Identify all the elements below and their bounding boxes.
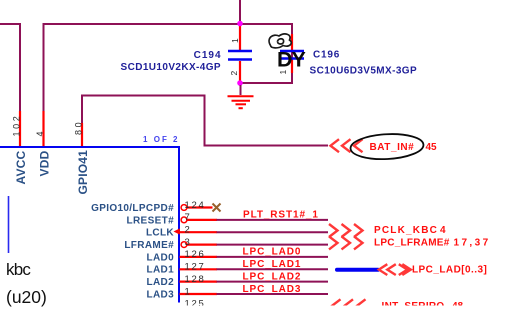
pin row 124 GPIO10/LPCPD# — [91, 200, 212, 214]
off-page connector chevrons LPC_LFRAME# — [329, 236, 363, 249]
wire C196 branch right side — [291, 23, 293, 84]
bus LPC_LAD thick segment — [337, 268, 378, 272]
IC left edge blue segment — [8, 196, 10, 253]
pin row 2 LCLK — [146, 225, 328, 239]
pin bubble LRESET# — [181, 217, 187, 223]
svg-text:C194: C194 — [194, 50, 222, 61]
pin row 7 LRESET# — [127, 210, 328, 227]
wire GPIO41 vertical riser — [81, 95, 83, 124]
bus chevrons left pair — [379, 264, 396, 275]
wire AVCC vertical drop — [19, 23, 21, 111]
capacitor C194 bottom red stub — [239, 61, 241, 84]
svg-text:3: 3 — [185, 237, 192, 248]
svg-text:LPC_LAD1: LPC_LAD1 — [243, 259, 302, 270]
handwritten scribble annotation — [269, 34, 291, 48]
svg-text:102: 102 — [11, 114, 21, 137]
pin row 1 LAD3 — [146, 284, 328, 301]
svg-text:LAD3: LAD3 — [146, 289, 174, 300]
svg-text:GPIO41: GPIO41 — [76, 150, 90, 195]
svg-text:kbc: kbc — [6, 260, 31, 279]
svg-text:LPC_LAD3: LPC_LAD3 — [243, 284, 302, 295]
pin row 127 LAD1 — [146, 259, 328, 276]
IC U20 box top edge — [0, 146, 180, 148]
pin line 7 — [187, 219, 217, 221]
svg-text:2: 2 — [185, 225, 192, 236]
svg-text:BAT_IN#: BAT_IN# — [370, 142, 415, 153]
svg-text:LPC_LAD2: LPC_LAD2 — [243, 271, 302, 282]
wire LAD0 net — [217, 256, 329, 258]
svg-text:C196: C196 — [313, 50, 340, 61]
svg-text:80: 80 — [73, 120, 83, 135]
off-page connector chevrons BAT_IN# — [331, 139, 363, 152]
svg-text:4: 4 — [35, 131, 45, 136]
svg-text:LPC_LAD[0..3]: LPC_LAD[0..3] — [412, 264, 487, 275]
pin row 126 LAD0 — [146, 247, 328, 264]
wire LAD1 net — [217, 268, 329, 270]
no-connect X on pin 124 — [213, 204, 221, 212]
junction dot top at C194 — [237, 21, 243, 27]
svg-text:7: 7 — [185, 212, 192, 223]
wire LRESET# net — [217, 219, 329, 221]
svg-text:2: 2 — [229, 71, 239, 76]
svg-text:1: 1 — [230, 38, 240, 43]
off-page connector chevrons INT_SERIRQ (clipped) — [332, 299, 366, 312]
svg-text:LCLK: LCLK — [146, 228, 174, 239]
wire loop bottom between C194 and C196 — [240, 82, 292, 84]
pin bubble LFRAME# — [181, 242, 187, 248]
wire LAD3 net — [217, 293, 329, 295]
pin clock marker LCLK — [174, 228, 180, 234]
wire VDD net horizontal — [44, 23, 293, 25]
svg-text:17,37: 17,37 — [454, 238, 491, 249]
svg-text:LPC_LAD0: LPC_LAD0 — [243, 247, 302, 258]
svg-text:(u20): (u20) — [6, 287, 47, 307]
svg-text:LFRAME#: LFRAME# — [124, 240, 174, 251]
hand-drawn ellipse around BAT_IN# — [350, 132, 424, 161]
junction dot bottom at C194 — [237, 80, 243, 86]
wire LCLK net — [217, 231, 329, 233]
capacitor C196 bottom red stub — [291, 60, 293, 73]
wire GPIO41 horizontal top — [81, 95, 205, 97]
svg-text:127: 127 — [185, 262, 206, 273]
pin row 3 LFRAME# — [124, 237, 328, 251]
pin line 3 — [187, 244, 217, 246]
svg-text:AVCC: AVCC — [14, 150, 28, 184]
svg-text:SC10U6D3V5MX-3GP: SC10U6D3V5MX-3GP — [310, 66, 418, 77]
IC U20 box right edge — [178, 146, 180, 303]
ground symbol — [240, 85, 242, 95]
svg-text:126: 126 — [185, 249, 206, 260]
svg-text:128: 128 — [185, 274, 206, 285]
capacitor C196 plates — [280, 51, 304, 59]
white clip of schematic window bottom — [62, 306, 509, 325]
wire BAT_IN# row horizontal — [204, 145, 329, 147]
svg-text:PLT_RST1#_1: PLT_RST1#_1 — [243, 210, 319, 221]
wire top feed into junction — [239, 0, 241, 24]
svg-text:LAD2: LAD2 — [146, 277, 174, 288]
svg-text:45: 45 — [426, 142, 438, 153]
pin line 1 — [180, 293, 218, 295]
svg-text:1: 1 — [185, 286, 192, 297]
pin line 126 — [180, 256, 218, 258]
bus chevrons right pair — [399, 264, 411, 275]
svg-text:1 OF 2: 1 OF 2 — [143, 135, 179, 144]
pin AVCC red segment — [19, 111, 21, 147]
pin line 2 — [180, 231, 218, 233]
svg-text:VDD: VDD — [38, 150, 52, 176]
pin row 128 LAD2 — [146, 271, 328, 288]
svg-text:LPC_LFRAME#: LPC_LFRAME# — [374, 238, 450, 249]
wire GPIO41 drop to BAT_IN# row — [204, 95, 206, 146]
off-page connector chevrons PCLK_KBC — [329, 224, 363, 237]
pin VDD red segment — [42, 111, 44, 147]
svg-text:LAD1: LAD1 — [146, 265, 174, 276]
wire VDD vertical drop — [43, 23, 45, 111]
pin GPIO41 red segment — [81, 123, 83, 147]
wire AVCC net from left edge — [0, 23, 20, 25]
svg-text:DY: DY — [277, 47, 306, 71]
svg-text:4: 4 — [440, 225, 446, 236]
svg-text:124: 124 — [185, 200, 206, 211]
capacitor C196 top red stub — [291, 34, 293, 50]
pin line 128 — [180, 281, 218, 283]
svg-text:PCLK_KBC: PCLK_KBC — [374, 225, 438, 236]
pin line 127 — [180, 268, 218, 270]
wire LAD2 net — [217, 281, 329, 283]
capacitor C194 plates — [228, 51, 252, 60]
svg-text:LAD0: LAD0 — [146, 252, 174, 263]
svg-text:GPIO10/LPCPD#: GPIO10/LPCPD# — [91, 203, 174, 214]
capacitor C194 top red stub — [239, 26, 241, 50]
svg-text:LRESET#: LRESET# — [127, 215, 175, 226]
svg-text:SCD1U10V2KX-4GP: SCD1U10V2KX-4GP — [121, 62, 221, 73]
wire LFRAME# net — [217, 244, 329, 246]
